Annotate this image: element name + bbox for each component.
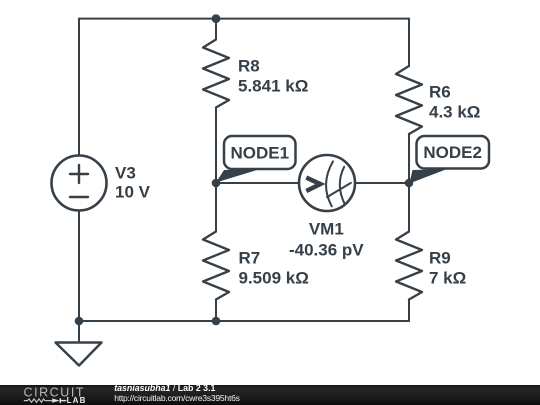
svg-text:7 kΩ: 7 kΩ xyxy=(429,269,466,288)
resistor R9 xyxy=(396,232,422,300)
svg-text:R7: R7 xyxy=(239,249,261,268)
junction dot ground xyxy=(75,317,84,326)
voltage source V3 xyxy=(52,156,107,211)
CircuitLab logo resistor squiggle xyxy=(24,398,52,401)
svg-text:R9: R9 xyxy=(429,249,451,268)
svg-text:http://circuitlab.com/cwre3s39: http://circuitlab.com/cwre3s395ht6s xyxy=(114,393,239,403)
svg-text:9.509 kΩ: 9.509 kΩ xyxy=(239,269,309,288)
wire left rail upper xyxy=(78,19,80,156)
node NODE1 xyxy=(216,136,296,183)
voltmeter VM1 xyxy=(299,155,355,211)
svg-text:5.841 kΩ: 5.841 kΩ xyxy=(238,77,308,96)
wire left rail lower xyxy=(78,211,80,322)
wire R7 bottom lead xyxy=(215,300,217,322)
svg-text:LAB: LAB xyxy=(67,395,87,404)
junction dot top xyxy=(212,14,221,23)
wire R9 top lead xyxy=(408,183,410,232)
wire ground stem xyxy=(78,321,80,343)
label VM1 xyxy=(289,220,364,260)
resistor R8 xyxy=(203,40,229,108)
label R7 xyxy=(239,249,309,288)
wire top rail xyxy=(79,18,409,20)
resistor R7 xyxy=(203,232,229,300)
svg-text:10 V: 10 V xyxy=(115,183,151,202)
resistor R6 xyxy=(396,66,422,134)
ground xyxy=(56,343,102,366)
label R8 xyxy=(238,57,308,96)
svg-text:-40.36 pV: -40.36 pV xyxy=(289,241,364,260)
wire R8 top lead xyxy=(215,19,217,40)
label V3 xyxy=(115,164,151,202)
svg-text:NODE1: NODE1 xyxy=(231,144,290,163)
wire bottom rail xyxy=(79,320,409,322)
svg-text:NODE2: NODE2 xyxy=(423,143,482,162)
wire VM1 to NODE2 xyxy=(355,182,409,184)
wire NODE1 to VM1 xyxy=(216,182,299,184)
svg-text:VM1: VM1 xyxy=(309,220,344,239)
wire R7 top lead xyxy=(215,183,217,232)
wire R8 bottom lead xyxy=(215,108,217,184)
node NODE2 xyxy=(409,136,489,184)
wire R6 bottom lead xyxy=(408,134,410,183)
svg-text:4.3 kΩ: 4.3 kΩ xyxy=(429,103,480,122)
wire R6 top lead xyxy=(408,19,410,66)
svg-text:tasniasubha1 / Lab 2 3.1: tasniasubha1 / Lab 2 3.1 xyxy=(114,385,215,393)
CircuitLab logo diode xyxy=(52,398,66,403)
svg-text:R6: R6 xyxy=(429,83,451,102)
svg-text:R8: R8 xyxy=(238,57,260,76)
junction dot NODE2 xyxy=(405,179,414,188)
wire R9 bottom lead xyxy=(408,300,410,322)
footer bar xyxy=(0,385,540,405)
junction dot NODE1 xyxy=(212,179,221,188)
label R6 xyxy=(429,83,480,122)
label R9 xyxy=(429,249,466,288)
svg-text:V3: V3 xyxy=(115,164,136,183)
junction dot bottom middle xyxy=(212,317,221,326)
